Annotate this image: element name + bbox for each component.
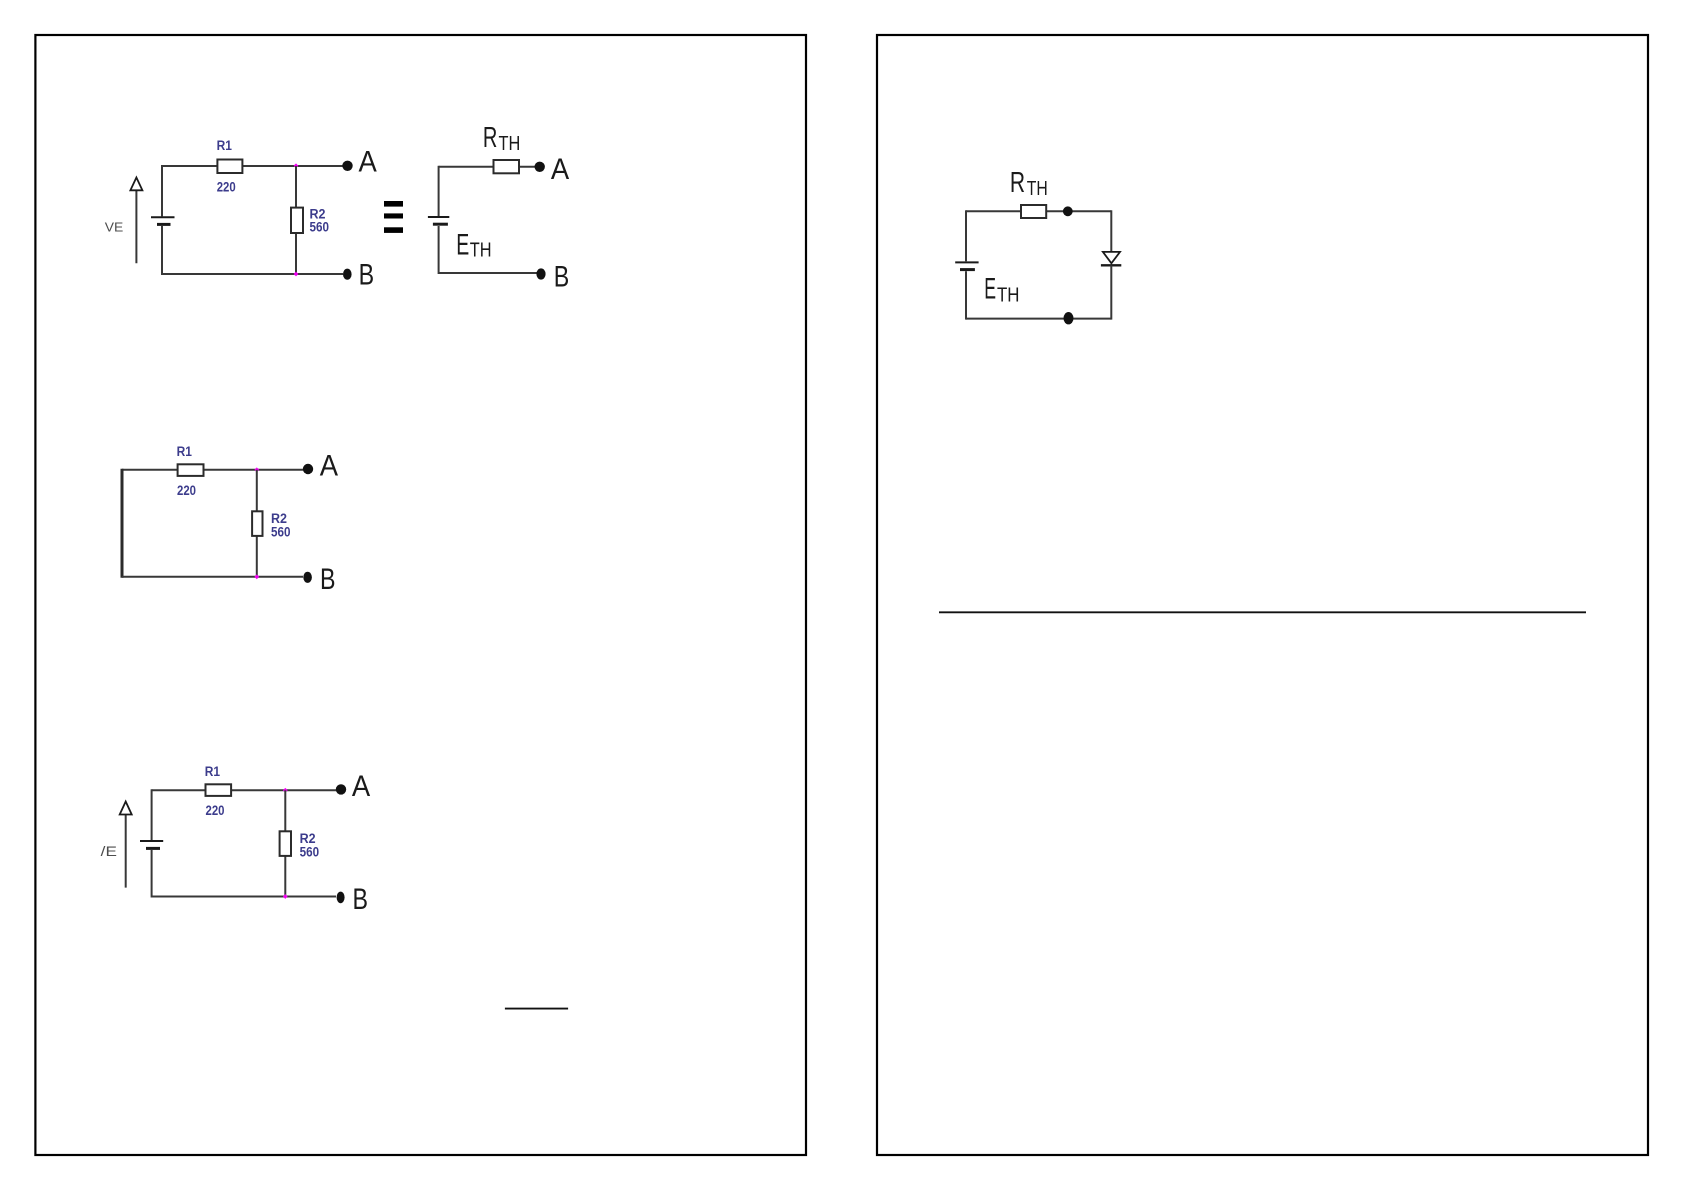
svg-text:R1: R1: [177, 444, 193, 459]
svg-text:B: B: [353, 883, 369, 916]
wire R2 vertical (C2): [256, 470, 258, 577]
svg-text:560: 560: [300, 845, 320, 860]
svg-text:E: E: [984, 273, 996, 306]
svg-text:560: 560: [271, 524, 291, 539]
battery /E short plate (C3): [146, 847, 160, 850]
wire top (C2): [122, 469, 303, 471]
svg-text:B: B: [359, 259, 375, 292]
label RTH (TH1): [483, 122, 520, 155]
svg-text:TH: TH: [499, 132, 521, 155]
page 2 horizontal rule: [939, 611, 1586, 613]
svg-text:B: B: [320, 563, 336, 596]
terminal B dot (C2): [303, 572, 312, 583]
wire right lower (P2): [1110, 265, 1112, 319]
svg-text:R1: R1: [205, 764, 221, 779]
node junction bottom (C3): [283, 894, 288, 899]
svg-text:220: 220: [217, 179, 236, 194]
svg-text:A: A: [352, 770, 371, 803]
terminal A dot (TH1): [535, 162, 545, 172]
wire bottom (TH1): [439, 272, 537, 274]
svg-text:R: R: [1010, 167, 1025, 199]
svg-text:/E: /E: [101, 843, 117, 859]
node dot bottom (P2): [1064, 312, 1074, 324]
terminal A dot (C3): [336, 784, 346, 794]
wire bottom (C2): [122, 576, 303, 578]
resistor R1 (C1): [217, 160, 242, 174]
page 2 border frame: [877, 35, 1648, 1155]
battery /E long plate (C3): [140, 840, 163, 842]
wire left lower (C1): [161, 226, 163, 275]
resistor RTH (TH1): [494, 160, 520, 173]
terminal A dot (C2): [303, 464, 313, 474]
svg-text:A: A: [551, 153, 570, 186]
wire bottom (C3): [152, 896, 336, 898]
battery VE long plate: [151, 216, 175, 218]
wire left lower (C3): [151, 850, 153, 898]
svg-text:TH: TH: [470, 240, 492, 262]
svg-text:220: 220: [206, 803, 225, 818]
wire left upper (P2): [965, 210, 967, 261]
terminal B dot (C1): [343, 269, 352, 280]
node junction top (C2): [254, 467, 259, 472]
wire bottom (C1): [162, 273, 343, 275]
svg-text:VE: VE: [105, 220, 124, 235]
terminal B dot (TH1): [536, 268, 545, 279]
svg-text:R1: R1: [217, 138, 233, 153]
wire top (C3): [152, 789, 336, 791]
svg-text:560: 560: [310, 219, 330, 234]
svg-text:TH: TH: [997, 284, 1020, 307]
resistor R2 (C1): [291, 208, 303, 233]
equivalence symbol: [384, 201, 403, 233]
battery VE short plate: [157, 223, 171, 226]
resistor R2 (C3): [280, 831, 291, 856]
page 1 short underline: [505, 1008, 568, 1010]
wire left upper (C1): [161, 165, 163, 216]
wire left lower (P2): [965, 271, 967, 319]
wire left upper (TH1): [438, 166, 440, 216]
wire left lower (TH1): [438, 226, 440, 274]
page 1 border frame: [35, 35, 806, 1155]
node junction top (C3): [283, 788, 288, 793]
wire top (C1): [162, 165, 343, 167]
svg-text:A: A: [320, 449, 339, 482]
node junction top (C1): [294, 163, 299, 168]
label ETH (P2): [984, 273, 1019, 307]
label ETH (TH1): [456, 228, 491, 261]
wire left upper (C3): [151, 789, 153, 840]
node junction bottom (C1): [294, 272, 299, 277]
svg-text:B: B: [554, 260, 570, 293]
svg-text:E: E: [456, 228, 469, 261]
resistor R2 (C2): [252, 511, 262, 536]
node junction bottom (C2): [254, 574, 259, 579]
wire top (TH1): [439, 166, 536, 168]
resistor R1 (C3): [206, 784, 232, 796]
node dot top (P2): [1063, 206, 1073, 216]
svg-text:R: R: [483, 122, 498, 154]
battery ETH long plate (TH1): [428, 216, 449, 218]
svg-text:TH: TH: [1027, 177, 1048, 200]
resistor RTH (P2): [1021, 205, 1046, 218]
arrow /E: [120, 802, 132, 888]
diode (P2): [1101, 252, 1121, 265]
terminal A dot (C1): [342, 161, 352, 171]
battery ETH short plate (P2): [960, 268, 975, 271]
svg-text:A: A: [359, 145, 378, 178]
wire R2 vertical (C3): [284, 790, 286, 896]
terminal B dot (C3): [337, 892, 345, 904]
battery ETH short plate (TH1): [433, 223, 448, 226]
wire R2 vertical (C1): [295, 166, 297, 274]
battery ETH long plate (P2): [955, 261, 978, 263]
arrow VE: [130, 178, 142, 264]
label RTH (P2): [1010, 167, 1048, 200]
resistor R1 (C2): [178, 464, 204, 476]
wire top (P2): [966, 210, 1111, 212]
wire bottom (P2): [966, 318, 1111, 320]
wire right upper (P2): [1110, 210, 1112, 252]
wire left short-circuit (C2): [121, 469, 124, 578]
svg-text:220: 220: [177, 483, 196, 498]
